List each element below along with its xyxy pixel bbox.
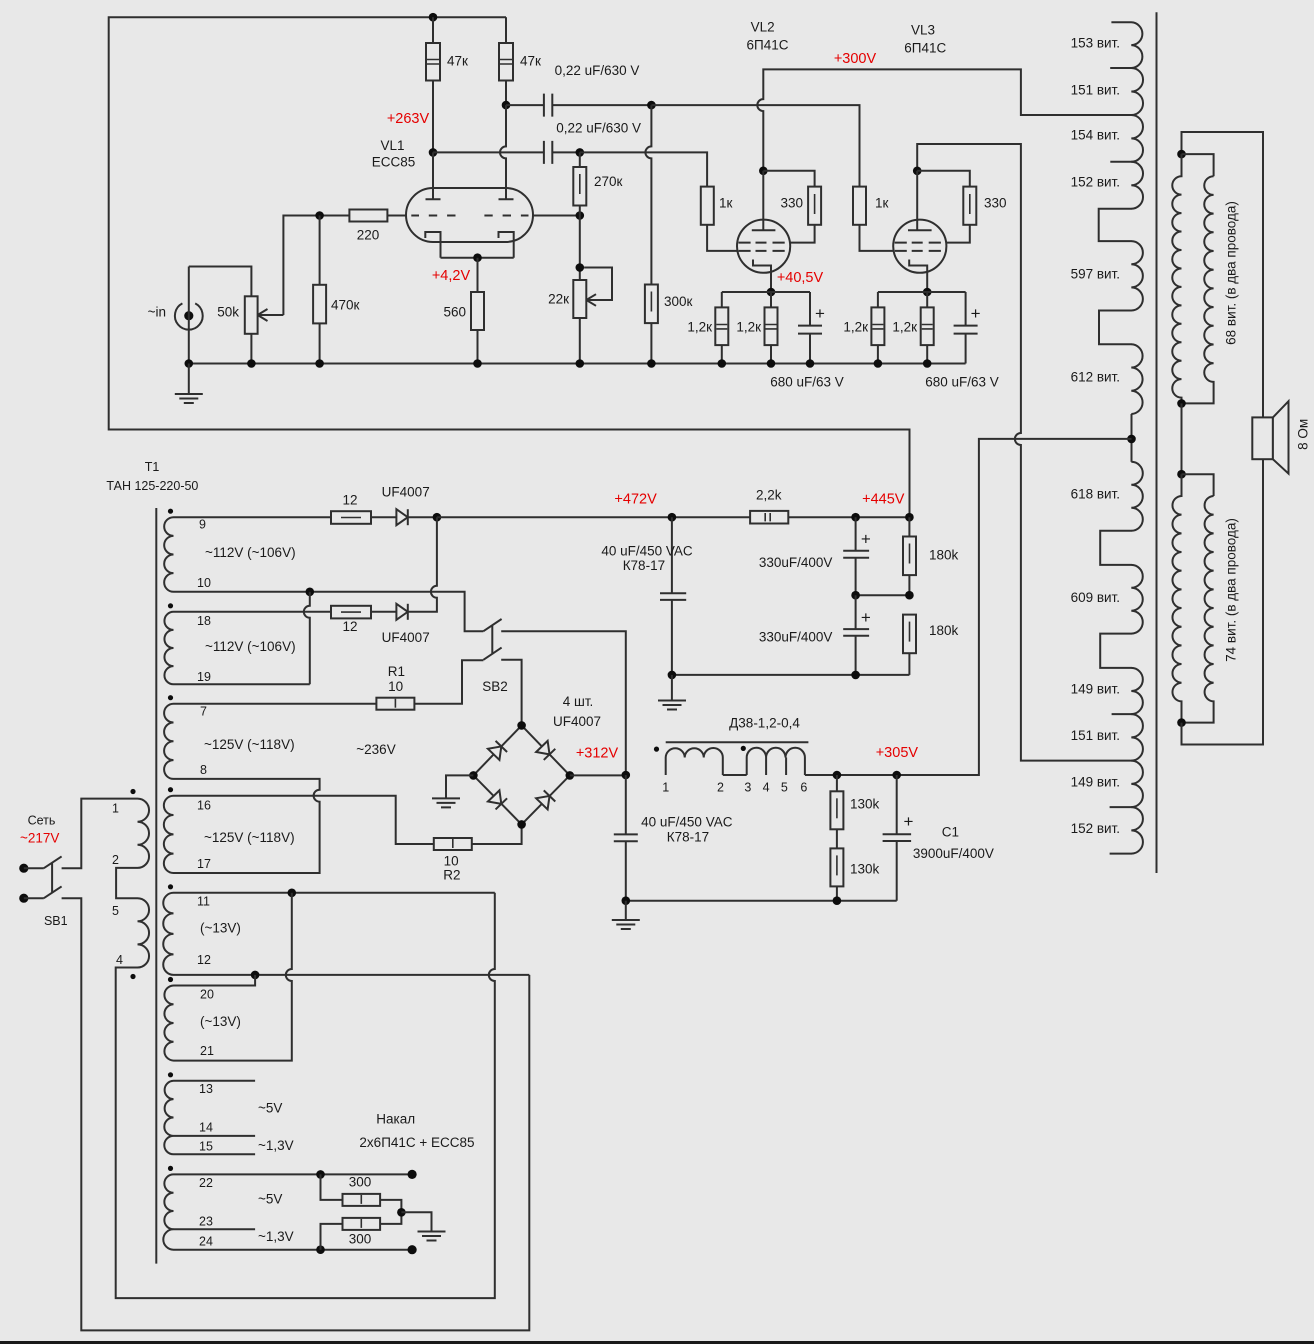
capacitor 40 uF/450 VAC К78-17 (b) (614, 775, 638, 901)
svg-text:10: 10 (444, 853, 459, 868)
winding 154 вит. (1131, 115, 1143, 162)
node net A junction (288, 889, 297, 898)
svg-text:1,2к: 1,2к (736, 320, 761, 335)
svg-text:(~13V): (~13V) (200, 1014, 241, 1029)
svg-text:50k: 50k (217, 305, 239, 320)
svg-text:SB1: SB1 (44, 914, 68, 928)
wire 24 lead (heater row) (174, 1249, 413, 1251)
svg-text:20: 20 (200, 988, 214, 1002)
wire 270k body leads (579, 152, 581, 280)
winding 68 вит. right wire (1182, 176, 1214, 403)
winding 153 вит. (1111, 22, 1142, 68)
svg-text:SB2: SB2 (482, 679, 508, 694)
wire middle junction line (856, 594, 910, 596)
svg-text:VL2: VL2 (751, 20, 775, 35)
svg-text:22: 22 (199, 1176, 213, 1190)
wire +305V rail (805, 774, 979, 776)
svg-text:T1: T1 (145, 460, 160, 474)
svg-text:+4,2V: +4,2V (432, 268, 471, 284)
wire secondary pair link 74 top (1182, 474, 1214, 496)
wire VL1 cathode to 560 (477, 258, 479, 364)
svg-text:9: 9 (199, 518, 206, 532)
svg-text:8: 8 (200, 763, 207, 777)
svg-text:+: + (861, 608, 871, 627)
node phase dot 9 (168, 509, 173, 514)
wire VL3 screen resistor branch (917, 171, 970, 187)
wire VL3 cathode bus (878, 291, 966, 293)
resistor R1 10 (376, 698, 414, 710)
resistor 130k (upper) (830, 791, 843, 829)
speaker 8 Ом (1252, 401, 1288, 473)
svg-text:300: 300 (349, 1232, 372, 1247)
wire 300b to center (380, 1212, 401, 1224)
svg-text:+305V: +305V (876, 745, 919, 761)
wire tap stub 154/152 (1110, 161, 1131, 163)
winding 151 вит. (1131, 68, 1143, 115)
svg-text:17: 17 (197, 857, 211, 871)
svg-text:1,2к: 1,2к (892, 320, 917, 335)
winding 20-21 (~13V) (164, 986, 173, 1061)
wire SB1 throw2 to net B loop (62, 898, 530, 1330)
wire primary 2-5 series link (116, 868, 137, 898)
resistor 300 (heater balance b) (343, 1218, 381, 1230)
resistor 1,2к (VL3 a) (871, 307, 884, 345)
capacitor 330uF/400V (lower) (843, 595, 869, 675)
svg-text:130k: 130k (850, 796, 880, 811)
svg-text:180k: 180k (929, 623, 959, 638)
wire 300b feed (321, 1224, 343, 1250)
svg-text:12: 12 (342, 493, 357, 508)
capacitor 0,22 uF/630 V (top coupling) (506, 94, 651, 117)
svg-text:680 uF/63 V: 680 uF/63 V (770, 375, 844, 390)
node middle junctions (851, 591, 860, 600)
svg-text:21: 21 (200, 1044, 214, 1058)
svg-text:330: 330 (984, 195, 1007, 210)
wire choke link 2-3 (723, 774, 747, 776)
svg-text:152 вит.: 152 вит. (1071, 175, 1120, 190)
svg-text:5: 5 (112, 904, 119, 918)
svg-text:1: 1 (112, 801, 119, 815)
tube VL3 envelope (893, 220, 946, 273)
svg-text:8 Ом: 8 Ом (1295, 419, 1310, 450)
svg-text:~1,3V: ~1,3V (258, 1138, 294, 1153)
svg-text:+: + (904, 812, 914, 831)
svg-text:10: 10 (388, 679, 403, 694)
tube VL3 screen grid (dashed) (895, 242, 941, 244)
ground (PSU filter) (612, 901, 640, 929)
tube VL3 anode plate (908, 229, 932, 231)
resistor 47к (right plate load) (499, 43, 513, 81)
connector input jack ~in (175, 303, 203, 329)
wire SB2 throw2 to bridge top (501, 660, 521, 726)
node phase dot coil1 (654, 747, 659, 752)
resistor 220 (grid stopper) (349, 210, 387, 222)
ground (doubler) (658, 675, 686, 710)
transformer T1 core (155, 508, 157, 1264)
resistor 12 (fuse b) (331, 606, 371, 619)
winding 22-23-24 (5V/1,3V) (163, 1174, 173, 1249)
wire bottom lead stub (1110, 853, 1132, 855)
wire 18 lead (174, 611, 332, 613)
node phase dot 13 (168, 1072, 173, 1077)
wire 300k with hop (645, 105, 651, 363)
resistor 1к (VL3 grid) (853, 187, 866, 225)
border bottom line (0, 1341, 1314, 1344)
wire secondary bottom to speaker (1182, 459, 1264, 744)
svg-text:330: 330 (780, 195, 803, 210)
wire R2 to bridge bottom (472, 824, 522, 844)
winding primary 1-2 (138, 799, 150, 868)
svg-text:560: 560 (443, 305, 466, 320)
svg-text:300: 300 (349, 1175, 372, 1190)
wire 10 lead / common (174, 592, 484, 631)
switch SB2 (483, 619, 501, 660)
wire 47k1 to anode node (432, 81, 434, 153)
node phase dot 22 (168, 1166, 173, 1171)
capacitor 0,22 uF/630 V (lower coupling) (433, 141, 580, 164)
svg-text:+445V: +445V (862, 492, 905, 508)
wire tap stub 153/151 (1110, 67, 1131, 69)
wire input to grid stopper (283, 216, 349, 316)
node bus junctions (185, 359, 194, 368)
svg-text:3900uF/400V: 3900uF/400V (913, 846, 994, 861)
resistor 300 (heater balance a) (343, 1194, 381, 1206)
svg-text:23: 23 (199, 1214, 213, 1228)
wire 22k bottom to bus (579, 318, 581, 364)
wire 11 lead (net A) (174, 892, 495, 894)
node +445V caps tap (851, 513, 860, 522)
tube VL1 right anode (499, 158, 514, 199)
diode bridge (4x UF4007) (473, 725, 569, 824)
node phase dot 11 (168, 884, 173, 889)
svg-text:+472V: +472V (614, 492, 657, 508)
svg-text:Д38-1,2-0,4: Д38-1,2-0,4 (729, 715, 800, 730)
op... tube VL1 envelope (406, 188, 533, 242)
node common tap (306, 588, 315, 597)
svg-text:1к: 1к (719, 195, 733, 210)
wire VL2 grid lead (707, 225, 737, 251)
node heater row 24 junctions (316, 1245, 325, 1254)
resistor 330 (VL3 screen) (963, 187, 976, 225)
inductor choke coil 1-2 (666, 748, 723, 775)
tube VL1 left anode (426, 152, 441, 199)
svg-text:15: 15 (199, 1139, 213, 1153)
node grid2/270k junction (576, 211, 585, 220)
node secondary mid junction a (1177, 399, 1186, 408)
winding 9-10 (~112V) (164, 517, 173, 592)
wire grid1 lead (387, 215, 406, 217)
node secondary top junction (1177, 150, 1186, 159)
svg-text:180k: 180k (929, 548, 959, 563)
svg-text:22к: 22к (548, 291, 569, 306)
svg-text:~236V: ~236V (356, 742, 395, 757)
wire center to ground (401, 1212, 431, 1231)
winding 68 вит. left wire (1172, 154, 1181, 403)
resistor 1,2к (VL3 b) (921, 307, 934, 345)
winding 74 вит. left wire (1172, 474, 1181, 722)
wire grid2 lead to 270k node (533, 215, 580, 217)
svg-text:~125V (~118V): ~125V (~118V) (204, 737, 295, 752)
wire center tap line to +305V riser (hop over VL3 line) (897, 439, 1132, 775)
wire tap stub 149/151 (1112, 713, 1132, 715)
svg-text:+40,5V: +40,5V (777, 270, 824, 286)
svg-text:1к: 1к (875, 195, 889, 210)
svg-text:220: 220 (357, 228, 380, 243)
svg-text:+300V: +300V (834, 51, 877, 67)
wire VL2 resistor legs to bus (722, 345, 771, 363)
node bus taps VL2 (718, 359, 727, 368)
winding 16-17 (~125V) (164, 796, 174, 873)
winding 152 вит. (1131, 162, 1143, 209)
svg-text:6П41С: 6П41С (747, 38, 789, 53)
resistor 270к (573, 167, 586, 206)
svg-text:618 вит.: 618 вит. (1071, 487, 1120, 502)
capacitor C1 3900uF/400V (883, 775, 912, 901)
node right anode junction (502, 101, 511, 110)
wire R1 to SB2 pole2 (414, 660, 483, 703)
wire right anode lead with hop (500, 105, 506, 188)
svg-text:VL3: VL3 (911, 23, 935, 38)
svg-text:ECC85: ECC85 (372, 155, 416, 170)
resistor 47к (left plate load) (426, 43, 440, 81)
wire VL3 screen lead (946, 225, 970, 243)
svg-text:UF4007: UF4007 (382, 630, 430, 645)
svg-text:680 uF/63 V: 680 uF/63 V (925, 375, 999, 390)
svg-text:2: 2 (112, 853, 119, 867)
svg-text:300к: 300к (664, 294, 693, 309)
wire PSU bottom rail (626, 900, 897, 902)
capacitor 680 uF/63 V (VL2) (798, 326, 822, 364)
tube VL2 screen grid (dashed) (739, 242, 785, 244)
wire coupling line to VL3 grid (651, 105, 859, 187)
tube VL2 anode plate (752, 229, 776, 231)
wire 19 lead (174, 683, 310, 685)
resistor 300к (645, 285, 658, 324)
wire cathode bus VL1 (441, 257, 514, 259)
ground (input) (175, 364, 203, 404)
winding 597 вит. (1131, 241, 1143, 310)
resistor 12 (fuse a) (331, 511, 371, 524)
svg-text:Сеть: Сеть (28, 814, 56, 828)
wire VL3 anode line to lower transformer tap (hop at center-tap line) (917, 144, 1131, 761)
node +312V junction (622, 771, 631, 780)
winding primary 5-4 (138, 898, 150, 967)
winding 13-14-15 (5V/1,3V) (164, 1081, 173, 1155)
wire jog 152/597 (1099, 209, 1132, 241)
winding 152 вит. (bottom) (1131, 807, 1143, 854)
wire primary 4 to net A loop (hop over net B line) (116, 893, 495, 1298)
node bus taps VL3 (874, 359, 883, 368)
wire 47k2 top lead (505, 17, 507, 43)
wire VL2 screen resistor branch (763, 171, 814, 187)
svg-text:330uF/400V: 330uF/400V (759, 630, 833, 645)
svg-text:6П41С: 6П41С (904, 41, 946, 56)
svg-text:C1: C1 (942, 825, 959, 840)
wire bridge minus to ground (446, 775, 473, 798)
svg-text:2: 2 (717, 781, 724, 795)
inductor choke coil 3-6 (747, 748, 805, 775)
diode UF4007 a (371, 509, 437, 525)
node doubler bottom junctions (668, 671, 677, 680)
resistor 180k (lower) (903, 615, 916, 654)
node VL3 cathode junction (923, 288, 932, 297)
svg-text:151 вит.: 151 вит. (1071, 728, 1120, 743)
capacitor 330uF/400V (upper) (843, 517, 869, 595)
svg-text:47к: 47к (520, 54, 541, 69)
svg-text:1,2к: 1,2к (687, 320, 712, 335)
svg-text:UF4007: UF4007 (553, 714, 601, 729)
wire bridge plus to +312V (570, 774, 626, 776)
node VL1 cathode (473, 253, 482, 262)
node +445V 180k tap (905, 513, 914, 522)
svg-text:R1: R1 (388, 664, 405, 679)
wire diode outputs join (hop over common line) (408, 517, 437, 612)
svg-text:149 вит.: 149 вит. (1071, 682, 1120, 697)
tube VL1 grid (dashed) (411, 215, 528, 217)
resistor R2 10 (434, 838, 472, 850)
wire 47k1 top lead (432, 17, 434, 43)
svg-text:130k: 130k (850, 861, 880, 876)
node B+ top junction (429, 13, 438, 22)
svg-text:~5V: ~5V (258, 1100, 282, 1115)
svg-text:2х6П41С + ЕСС85: 2х6П41С + ЕСС85 (359, 1135, 474, 1150)
svg-text:470к: 470к (331, 298, 360, 313)
winding 149 вит. (upper) (1131, 668, 1143, 714)
capacitor 40 uF/450 VAC К78-17 (a) (660, 517, 686, 675)
svg-text:+263V: +263V (387, 111, 430, 127)
svg-text:14: 14 (199, 1121, 213, 1135)
wire VL2 cathode legs (722, 292, 810, 326)
svg-text:~217V: ~217V (20, 830, 59, 845)
wire SB2 throw1 to +312V rail (501, 631, 626, 775)
node 270k top (576, 148, 585, 157)
svg-text:К78-17: К78-17 (623, 558, 665, 573)
node C1 tap (892, 771, 901, 780)
svg-text:ТАН 125-220-50: ТАН 125-220-50 (106, 479, 198, 493)
node VL2 cathode junction (767, 288, 776, 297)
node 130k tap (833, 771, 842, 780)
winding 7-8 (~125V) (164, 704, 173, 779)
node 300k top (647, 101, 656, 110)
svg-text:1,2к: 1,2к (843, 320, 868, 335)
wire jog 618/609 (1100, 531, 1131, 565)
resistor 180k (upper) (903, 537, 916, 576)
svg-text:19: 19 (197, 670, 211, 684)
resistor 470к (grid leak) (313, 285, 326, 324)
potentiometer 22к (feedback trim) (573, 268, 612, 319)
svg-text:12: 12 (342, 619, 357, 634)
svg-text:~112V (~106V): ~112V (~106V) (205, 545, 296, 560)
svg-text:~112V (~106V): ~112V (~106V) (205, 639, 296, 654)
wire ground bus (amp section) (189, 363, 966, 365)
wire tap stub 149/152 (1110, 806, 1132, 808)
node phase dot coil2 (741, 746, 746, 751)
wire secondary pair link top (1182, 154, 1214, 176)
node 270k/22k junction (576, 263, 585, 272)
wire 300a feed (321, 1174, 343, 1200)
node heater row 22 junctions (316, 1170, 325, 1179)
winding 74 вит. right wire (1182, 496, 1214, 723)
wire coupling line to VL2 grid (580, 152, 707, 186)
svg-text:5: 5 (781, 781, 788, 795)
inductor choke core line (666, 741, 809, 743)
winding 609 вит. (1131, 565, 1142, 634)
winding 11-12 (~13V) (163, 893, 173, 975)
node rectifier output junction (433, 513, 442, 522)
wire secondary top lead to speaker (1182, 132, 1264, 417)
svg-text:153 вит.: 153 вит. (1071, 36, 1120, 51)
svg-text:68 вит. (в два провода): 68 вит. (в два провода) (1224, 201, 1239, 345)
svg-text:149 вит.: 149 вит. (1071, 774, 1120, 789)
svg-text:+: + (815, 304, 825, 323)
wire jog 597/612 (1099, 311, 1132, 345)
svg-text:3: 3 (744, 781, 751, 795)
winding 18-19 (~112V) (164, 612, 173, 684)
tube VL2 envelope (737, 220, 790, 273)
wire VL2 screen lead (790, 225, 815, 243)
wire 16 lead to R2 (174, 796, 434, 844)
wire 23 tap stub (174, 1228, 256, 1230)
svg-text:~5V: ~5V (258, 1192, 282, 1207)
svg-text:13: 13 (199, 1082, 213, 1096)
node phase dot 16 (168, 787, 173, 792)
tube VL2 cathode (753, 260, 771, 293)
capacitor 680 uF/63 V (VL3) (954, 326, 978, 364)
wire +472V rail (437, 516, 910, 518)
svg-text:152 вит.: 152 вит. (1071, 821, 1120, 836)
wire 470k leads (319, 216, 321, 364)
svg-text:10: 10 (197, 576, 211, 590)
wire VL3 grid lead (860, 225, 894, 251)
svg-text:~in: ~in (148, 305, 166, 320)
svg-text:4 шт.: 4 шт. (563, 694, 594, 709)
svg-text:Накал: Накал (376, 1112, 415, 1127)
svg-text:12: 12 (197, 953, 211, 967)
svg-text:24: 24 (199, 1235, 213, 1249)
node center tap (1127, 435, 1136, 444)
wire SB1 throw1 to primary 1 (62, 799, 138, 869)
svg-text:0,22 uF/630 V: 0,22 uF/630 V (555, 63, 640, 78)
transformer output core (1156, 12, 1158, 873)
svg-text:0,22 uF/630 V: 0,22 uF/630 V (556, 120, 641, 135)
resistor 2,2k (750, 511, 788, 524)
svg-text:154 вит.: 154 вит. (1071, 128, 1120, 143)
resistor 1,2к (VL2 b) (765, 307, 778, 345)
node net B junction (251, 971, 260, 980)
node mains terminals (19, 864, 28, 873)
wire net A to 21 (hop over net B line) (174, 893, 292, 1061)
svg-text:+312V: +312V (576, 746, 619, 762)
winding 151 вит. (lower) (1131, 714, 1143, 761)
svg-text:40 uF/450 VAC: 40 uF/450 VAC (601, 544, 693, 559)
resistor 130k (lower) (830, 848, 843, 886)
wire +445V feed frame (B+ loop around amp) (109, 17, 910, 517)
tube VL1 right cathode (499, 232, 514, 258)
node phase dot 20 (168, 977, 173, 982)
svg-text:74 вит. (в два провода): 74 вит. (в два провода) (1224, 518, 1239, 662)
wire 47k2 to node (505, 81, 507, 106)
wire jog 609/149 (1100, 634, 1131, 668)
wire 22 lead (heater row) (174, 1173, 413, 1175)
svg-text:11: 11 (197, 895, 210, 909)
wire VL2 cathode bus (722, 291, 810, 293)
wire 8 lead down to 17 (hop over 16 lead) (174, 779, 320, 873)
svg-text:18: 18 (197, 614, 211, 628)
wire 12 lead (net B) with hops (174, 974, 530, 976)
wire secondary series link (1181, 403, 1183, 474)
svg-text:К78-17: К78-17 (667, 830, 709, 845)
svg-text:47к: 47к (447, 54, 468, 69)
